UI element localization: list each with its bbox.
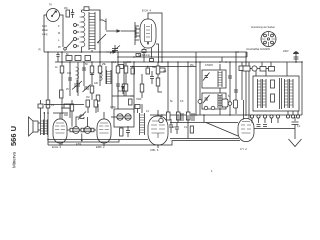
driver choke (135, 104, 145, 135)
resistors above V3 (86, 100, 98, 113)
coil 2 loops (100, 70, 103, 81)
tall wire right of V1 (161, 13, 163, 63)
svg-text:2M: 2M (190, 64, 193, 67)
svg-text:100: 100 (94, 82, 99, 85)
bus H2 (44, 51, 247, 53)
antenna coil L1 loops with taps (80, 10, 85, 52)
osc coil loops (67, 67, 79, 79)
speaker (29, 117, 39, 136)
pickup circle P1 (47, 9, 60, 22)
svg-text:Anordnung der Sockel: Anordnung der Sockel (251, 26, 275, 29)
resistor R1 (64, 7, 70, 17)
svg-text:Umschaltbar 110/220V: Umschaltbar 110/220V (246, 48, 271, 51)
core lines (280, 78, 282, 109)
comps between buses x55-96 (56, 52, 90, 62)
svg-text:470kHz: 470kHz (205, 64, 214, 67)
left winding pair (258, 79, 267, 108)
ground arrow (289, 117, 302, 147)
right terminals (286, 111, 299, 118)
svg-text:1M: 1M (118, 90, 121, 93)
junction dots (47, 51, 239, 63)
resistor (60, 90, 64, 98)
title Minerva 566 U rotated (9, 126, 18, 168)
svg-text:M: M (58, 32, 60, 35)
trimmer 2 (83, 85, 91, 93)
svg-text:1M: 1M (86, 96, 89, 99)
switch wiper S1 (103, 19, 136, 33)
small winding block (107, 70, 112, 84)
rail y57 (118, 56, 247, 58)
svg-text:TA: TA (49, 4, 52, 7)
switch contacts column (64, 24, 79, 51)
speaker wires (48, 139, 148, 141)
svg-text:7000: 7000 (136, 98, 142, 101)
extra small comps (60, 65, 134, 119)
tube V1 ECH4 (131, 9, 165, 75)
stack resistors x158 (156, 62, 162, 92)
extra mesh verticals (70, 62, 124, 96)
verticals from coils to bus (99, 10, 101, 52)
box top connectors (256, 62, 287, 76)
svg-text:566 U: 566 U (9, 126, 18, 146)
middle column extras (121, 54, 154, 98)
comps on x118/126 (116, 66, 134, 105)
power transformer box (253, 76, 299, 111)
svg-text:300: 300 (127, 61, 132, 64)
svg-text:Lang: Lang (42, 33, 48, 36)
capacitor C1 (71, 9, 74, 18)
svg-text:CY 2: CY 2 (240, 147, 247, 151)
svg-text:2M: 2M (64, 7, 67, 10)
comps above speaker (38, 100, 45, 120)
grid connection column left of tube (135, 22, 139, 45)
bus H3 (55, 61, 302, 63)
svg-text:hochohmig: hochohmig (138, 54, 150, 57)
cap right of V4 (169, 119, 173, 133)
mains arrow (283, 50, 299, 63)
svg-text:Mittel: Mittel (42, 29, 48, 32)
scattered value labels (55, 61, 230, 129)
switch wiper S2 on bus (106, 50, 117, 53)
bus H5 bottom (48, 141, 240, 146)
wires to V2 (62, 108, 74, 145)
rail y66 (130, 66, 196, 68)
row comps above H4 (159, 62, 202, 123)
wires left of V5 (170, 95, 239, 139)
svg-text:Kurz: Kurz (42, 25, 48, 28)
svg-text:ECH 4: ECH 4 (142, 9, 151, 13)
vertical x247 (246, 52, 248, 57)
output transformer (38, 120, 47, 136)
padder trimmer (72, 80, 82, 92)
trimmer on bus x112-120 (110, 45, 120, 54)
svg-text:220V: 220V (283, 50, 289, 53)
comps between V4 and V5 (175, 115, 194, 139)
wire P1 to bus (44, 15, 47, 52)
terminals bottom (250, 115, 279, 127)
top wire H1 stepped (82, 10, 104, 20)
svg-text:470k: 470k (76, 143, 82, 146)
bus H4 (150, 114, 302, 116)
svg-text:CBL 6: CBL 6 (150, 148, 159, 152)
comp cluster left of V5 (204, 99, 237, 110)
winding block L2 (89, 12, 95, 50)
comp on top wire (84, 7, 89, 11)
center comps (271, 80, 275, 88)
comps on x230/236 (228, 76, 232, 78)
heater line to arrow (254, 128, 295, 130)
comps between V3 and V4 low (120, 126, 130, 137)
resistor lower (46, 100, 50, 108)
wire P1 right (60, 15, 64, 47)
right winding pair (285, 79, 294, 108)
fuse + switch row (243, 66, 275, 71)
comp on x92 (90, 72, 94, 75)
svg-text:300: 300 (64, 114, 69, 117)
wiper diagonal near coil B (98, 34, 106, 42)
svg-text:0,5M: 0,5M (110, 106, 115, 109)
band labels (42, 25, 62, 49)
svg-text:Minerva: Minerva (12, 151, 17, 168)
